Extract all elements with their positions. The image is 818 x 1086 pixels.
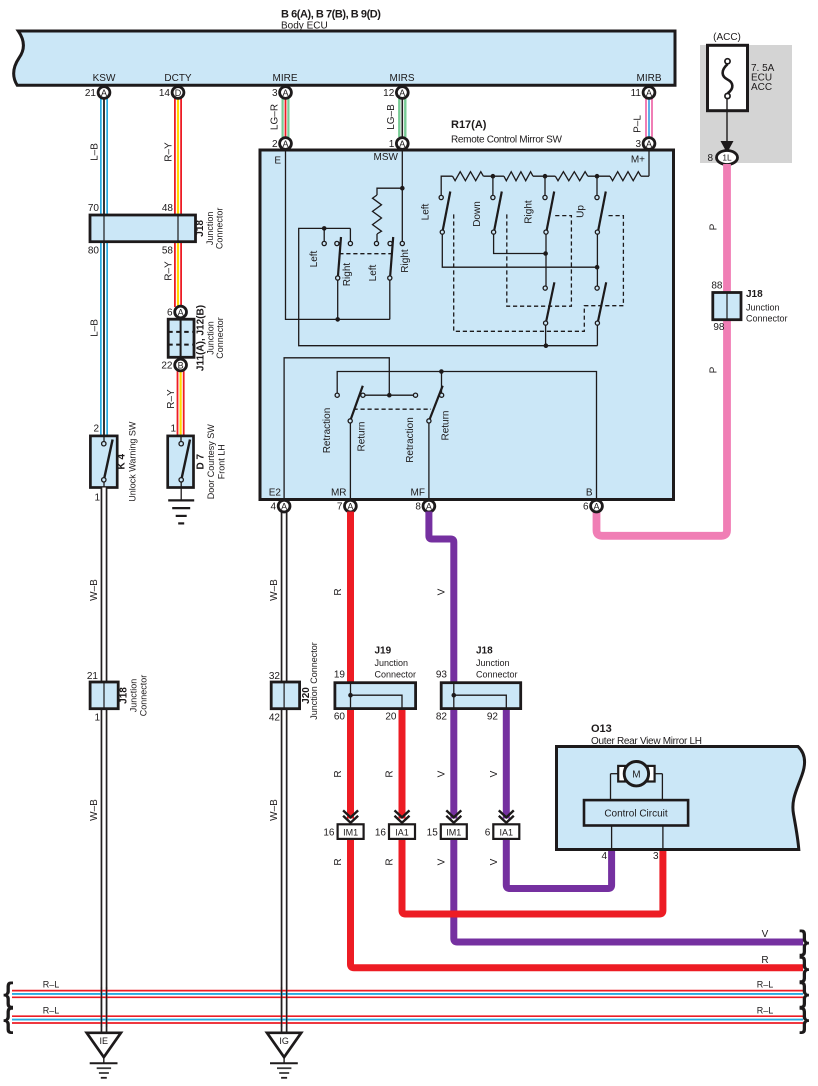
svg-text:Left: Left <box>368 264 379 281</box>
junction connector J18 small left 21-1 <box>87 671 149 724</box>
svg-text:L–B: L–B <box>90 319 101 337</box>
svg-text:R–L: R–L <box>43 1005 60 1015</box>
svg-text:Connector: Connector <box>375 670 417 680</box>
retraction contact row wire <box>365 394 413 396</box>
switch blade retraction MF <box>430 386 443 419</box>
svg-text:22: 22 <box>161 361 173 372</box>
svg-text:Junction: Junction <box>746 303 780 313</box>
ground symbol IE <box>87 1033 121 1078</box>
svg-text:D: D <box>175 88 182 98</box>
wire P fuse to corner to R17 pin B <box>597 164 728 536</box>
dashed coupling Down-Right axis <box>507 214 572 306</box>
wire V J18 pin82 through IM1 to bottom V line <box>454 709 803 942</box>
switch blade select 1 <box>338 237 341 276</box>
svg-text:MSW: MSW <box>374 152 399 163</box>
ground under D7 <box>168 500 194 523</box>
mirror motor M <box>611 762 663 786</box>
svg-text:80: 80 <box>88 246 100 257</box>
svg-text:MR: MR <box>331 488 347 499</box>
svg-text:20: 20 <box>385 712 397 723</box>
contact circles lower switches <box>543 286 547 290</box>
svg-text:K 4: K 4 <box>117 453 128 469</box>
svg-text:Front LH: Front LH <box>217 444 227 479</box>
svg-text:R: R <box>333 858 344 865</box>
pin 3 A (M+) <box>635 138 654 150</box>
svg-text:W–B: W–B <box>269 579 280 601</box>
wire E column <box>286 150 390 319</box>
K4 Unlock Warning SW <box>90 421 137 503</box>
svg-text:A: A <box>347 501 353 511</box>
svg-text:82: 82 <box>436 712 448 723</box>
svg-text:2: 2 <box>93 424 99 435</box>
control circuit pins to block edge <box>611 826 613 850</box>
pin 2 A (E) <box>272 138 291 150</box>
svg-text:Connector: Connector <box>215 208 225 250</box>
wire R J19 pin60 through IM1 to bottom R line <box>351 709 804 968</box>
svg-text:L–B: L–B <box>90 143 101 161</box>
svg-text:1: 1 <box>94 713 100 724</box>
svg-text:1L: 1L <box>722 153 732 163</box>
svg-text:MIRE: MIRE <box>273 73 298 84</box>
svg-text:16: 16 <box>375 827 387 838</box>
wire R-Y J11 to D7 <box>177 370 185 436</box>
node dot MSW <box>400 186 405 191</box>
wire left select top bus <box>299 228 598 345</box>
junction connector J20 32-42 <box>269 642 319 723</box>
svg-text:W–B: W–B <box>89 799 100 821</box>
pin 4 A (E2) <box>271 500 290 512</box>
svg-text:IG: IG <box>279 1036 289 1046</box>
svg-text:A: A <box>282 139 288 149</box>
switch blade select 2 <box>390 237 393 276</box>
svg-text:R: R <box>385 770 396 777</box>
svg-text:W–B: W–B <box>89 579 100 601</box>
svg-text:1: 1 <box>94 493 100 504</box>
node dot retraction feed <box>387 393 392 398</box>
pin 14 D DCTY <box>159 87 184 99</box>
svg-text:R–Y: R–Y <box>164 142 175 162</box>
junction connector J18 mid <box>436 646 521 723</box>
contact circles select sw 1 <box>322 241 326 245</box>
svg-text:4: 4 <box>271 502 277 513</box>
svg-text:R–L: R–L <box>757 980 774 990</box>
svg-text:Body ECU: Body ECU <box>281 21 328 32</box>
svg-text:32: 32 <box>269 671 281 682</box>
svg-text:Junction: Junction <box>476 658 510 668</box>
pin 7 A (MR) <box>337 500 356 512</box>
svg-text:Connector: Connector <box>215 317 225 359</box>
fuse gray box <box>700 45 792 163</box>
svg-text:A: A <box>281 501 287 511</box>
wire W-B K4 to ground IE <box>101 488 108 1033</box>
svg-text:D 7: D 7 <box>196 453 207 469</box>
wire R J19 pin20 to O13 pin3 <box>402 709 663 914</box>
svg-text:Remote Control Mirror SW: Remote Control Mirror SW <box>451 135 562 146</box>
stub B rail to contact <box>441 372 443 394</box>
D7 Door Courtesy SW Front LH <box>168 424 227 501</box>
pin 1 A (MSW) <box>389 138 408 150</box>
svg-text:Return: Return <box>441 410 452 440</box>
pin 8 1L oval <box>707 151 737 165</box>
contact circles select sw 2 <box>374 241 378 245</box>
svg-text:Retraction: Retraction <box>405 417 416 463</box>
pin 11 A MIRB <box>631 87 655 99</box>
node dot lower rail <box>544 343 549 348</box>
wire Right blade down to lower-left contact <box>545 234 547 286</box>
svg-text:14: 14 <box>159 88 171 99</box>
svg-text:92: 92 <box>487 712 499 723</box>
svg-text:J18: J18 <box>746 289 763 300</box>
ground symbol IG <box>267 1033 301 1078</box>
svg-text:M+: M+ <box>631 155 645 166</box>
wire R-Y DCTY to J11 <box>174 98 182 307</box>
svg-text:R17(A): R17(A) <box>451 119 487 131</box>
svg-text:E: E <box>274 156 281 167</box>
svg-text:R–Y: R–Y <box>166 389 177 409</box>
Body ECU banner B6(A),B7(B),B9(D) <box>14 31 675 85</box>
svg-text:O13: O13 <box>591 723 612 735</box>
svg-text:Junction: Junction <box>206 321 216 355</box>
contact stubs select sw 1 <box>323 228 325 241</box>
svg-text:Right: Right <box>400 249 411 273</box>
svg-text:8: 8 <box>415 502 421 513</box>
svg-text:Junction: Junction <box>205 212 215 246</box>
pin 6 A (B) <box>583 500 602 512</box>
svg-text:R: R <box>333 770 344 777</box>
wire L-B KSW to K4 <box>100 98 108 436</box>
svg-text:R: R <box>761 955 768 966</box>
svg-text:6: 6 <box>485 827 491 838</box>
node dot B rail <box>439 369 444 374</box>
dashed coupling retraction <box>354 408 432 410</box>
pin 3 A MIRE <box>272 87 291 99</box>
svg-text:MIRS: MIRS <box>390 73 415 84</box>
svg-text:{: { <box>4 1003 13 1034</box>
svg-text:Left: Left <box>421 203 432 220</box>
svg-text:Left: Left <box>309 250 320 267</box>
svg-text:Right: Right <box>342 263 353 287</box>
dashed coupling select sw <box>339 253 391 255</box>
svg-text:88: 88 <box>711 281 723 292</box>
svg-text:B: B <box>178 360 184 370</box>
junction connector J18 right 88-98 <box>711 281 787 334</box>
svg-text:A: A <box>646 139 652 149</box>
switch blade lower-right <box>598 282 606 321</box>
svg-text:60: 60 <box>334 712 346 723</box>
fuse output line and arrow <box>726 99 728 144</box>
svg-text:V: V <box>437 588 448 595</box>
svg-text:6: 6 <box>583 502 589 513</box>
svg-text:3: 3 <box>635 139 641 150</box>
svg-text:R: R <box>385 858 396 865</box>
fuse 7.5A ECU ACC box <box>708 45 748 110</box>
splice arrow 16 IM1 (col1) <box>323 810 363 838</box>
svg-text:Connector: Connector <box>746 314 788 324</box>
svg-text:58: 58 <box>162 246 174 257</box>
svg-text:P: P <box>709 366 720 373</box>
O13 Outer Rear View Mirror LH block <box>557 747 805 850</box>
wire Up blade down to lower-right contact <box>596 234 598 286</box>
pin 21 A KSW <box>85 87 110 99</box>
resistor chain M+ <box>641 175 649 177</box>
svg-text:Connector: Connector <box>476 670 518 680</box>
splice arrow 15 IM1 (col3) <box>427 810 467 838</box>
svg-text:70: 70 <box>88 203 100 214</box>
wire W-B E2 to ground IG <box>281 512 288 1033</box>
fuse element <box>723 59 733 99</box>
junction connector J19 <box>334 646 416 723</box>
svg-text:J18: J18 <box>476 646 493 657</box>
svg-text:ACC: ACC <box>751 82 772 93</box>
svg-text:V: V <box>489 770 500 777</box>
splice arrow 6 IA1 (col4) <box>485 810 520 838</box>
svg-text:R–L: R–L <box>757 1005 774 1015</box>
svg-text:IE: IE <box>100 1036 109 1046</box>
svg-text:8: 8 <box>707 153 713 164</box>
junction connector J11(A) J12(B) <box>161 305 225 372</box>
svg-text:V: V <box>762 929 769 940</box>
svg-text:A: A <box>178 307 184 317</box>
svg-text:21: 21 <box>87 671 99 682</box>
svg-text:Junction Connector: Junction Connector <box>309 642 319 720</box>
fuse value label <box>751 63 775 93</box>
svg-text:48: 48 <box>162 203 174 214</box>
contact circles direction switches <box>439 195 443 199</box>
svg-text:Up: Up <box>576 205 587 218</box>
svg-text:P–L: P–L <box>633 115 644 133</box>
svg-text:Outer Rear View Mirror LH: Outer Rear View Mirror LH <box>591 736 702 747</box>
switch blade Up <box>598 192 606 231</box>
svg-text:LG–B: LG–B <box>386 104 397 130</box>
svg-text:11: 11 <box>631 88 642 99</box>
node dots resistor chain <box>491 174 496 179</box>
svg-text:B 6(A), B 7(B), B 9(D): B 6(A), B 7(B), B 9(D) <box>281 9 381 21</box>
svg-text:MIRB: MIRB <box>637 73 662 84</box>
wire LG-B MIRS stub <box>398 98 406 137</box>
svg-text:Junction: Junction <box>375 658 409 668</box>
svg-text:15: 15 <box>427 827 439 838</box>
svg-text:1: 1 <box>170 424 176 435</box>
wire Left blade to mid rail <box>442 234 597 267</box>
svg-text:3: 3 <box>272 88 278 99</box>
svg-text:J19: J19 <box>375 646 392 657</box>
svg-text:R: R <box>333 588 344 595</box>
svg-text:Door Courtesy SW: Door Courtesy SW <box>206 424 216 500</box>
contact stubs chain <box>492 176 494 195</box>
svg-text:Junction: Junction <box>129 679 139 713</box>
svg-text:DCTY: DCTY <box>164 73 192 84</box>
svg-text:Down: Down <box>472 201 483 227</box>
svg-text:Connector: Connector <box>139 675 149 717</box>
svg-text:P: P <box>709 223 720 230</box>
svg-text:A: A <box>593 501 599 511</box>
svg-text:A: A <box>646 88 652 98</box>
contact circles retraction <box>335 393 339 397</box>
svg-text:A: A <box>399 139 405 149</box>
svg-text:V: V <box>437 858 448 865</box>
wire MSW column <box>401 150 403 241</box>
svg-text:LG–R: LG–R <box>270 104 281 130</box>
svg-text:A: A <box>282 88 288 98</box>
svg-text:93: 93 <box>436 670 448 681</box>
svg-text:Right: Right <box>524 200 535 224</box>
node dot mid rail <box>595 265 600 270</box>
control circuit box <box>584 800 688 825</box>
switch blade Right <box>547 192 555 231</box>
svg-text:KSW: KSW <box>93 73 116 84</box>
R-L bus 2 <box>12 1016 803 1023</box>
svg-text:4: 4 <box>601 851 607 862</box>
resistor MSW branch <box>377 188 402 195</box>
svg-text:IA1: IA1 <box>500 827 514 837</box>
svg-text:IM1: IM1 <box>446 827 461 837</box>
wire V MF jog to J18 column <box>429 512 454 683</box>
dashed coupling Left-Up axis <box>454 214 624 331</box>
svg-text:Retraction: Retraction <box>322 408 333 454</box>
svg-text:R–Y: R–Y <box>164 261 175 281</box>
switch blade Down <box>494 192 502 231</box>
svg-text:1: 1 <box>389 139 395 150</box>
node dot left bus <box>322 226 327 231</box>
wire P-L MIRB stub <box>645 98 653 137</box>
svg-text:M: M <box>632 770 640 781</box>
switch blade lower-left <box>546 282 554 321</box>
svg-text:(ACC): (ACC) <box>713 32 741 43</box>
wire B rail <box>337 372 596 500</box>
wire LG-R MIRE stub <box>282 98 290 137</box>
pin 12 A MIRS <box>383 87 408 99</box>
svg-text:E2: E2 <box>269 488 282 499</box>
svg-text:B: B <box>586 488 593 499</box>
node dot E rail <box>335 317 340 322</box>
svg-text:R–L: R–L <box>43 980 60 990</box>
svg-text:6: 6 <box>167 308 173 319</box>
svg-text:A: A <box>426 501 432 511</box>
svg-text:2: 2 <box>272 139 278 150</box>
splice arrow 16 IA1 (col2) <box>375 810 415 838</box>
wire V J18 pin92 to O13 pin4 <box>506 709 611 889</box>
R-L bus 1 <box>12 991 803 998</box>
svg-text:42: 42 <box>269 713 281 724</box>
wire M+ column <box>648 150 650 176</box>
svg-text:Return: Return <box>357 421 368 451</box>
svg-text:3: 3 <box>653 851 659 862</box>
switch blade Left <box>443 192 451 231</box>
svg-text:}: } <box>800 1003 809 1034</box>
svg-text:IM1: IM1 <box>343 827 358 837</box>
svg-text:21: 21 <box>85 88 97 99</box>
wire E2 column <box>284 358 389 500</box>
svg-text:16: 16 <box>323 827 335 838</box>
svg-text:Unlock Warning SW: Unlock Warning SW <box>128 421 138 502</box>
wire Down blade to Right column <box>494 234 546 253</box>
svg-text:A: A <box>101 88 107 98</box>
svg-text:V: V <box>489 858 500 865</box>
node dot Right column <box>543 251 548 256</box>
svg-text:98: 98 <box>713 322 725 333</box>
junction connector J18 top 70/48 - 80/58 <box>88 203 225 257</box>
svg-text:12: 12 <box>383 88 395 99</box>
switch blade retraction MR <box>351 386 363 419</box>
wire W-B edges over bus (left) <box>101 987 286 1027</box>
svg-text:A: A <box>399 88 405 98</box>
svg-text:MF: MF <box>411 488 425 499</box>
svg-text:W–B: W–B <box>269 799 280 821</box>
svg-text:19: 19 <box>334 670 346 681</box>
svg-text:IA1: IA1 <box>395 827 409 837</box>
pin 8 A (MF) <box>415 500 434 512</box>
wire R MR pin to J19 <box>347 512 354 683</box>
R17(A) Remote Control Mirror SW block <box>260 150 674 500</box>
motor wires to control circuit <box>610 774 612 800</box>
svg-text:7: 7 <box>337 502 343 513</box>
svg-text:V: V <box>437 770 448 777</box>
svg-text:Control Circuit: Control Circuit <box>604 809 668 820</box>
